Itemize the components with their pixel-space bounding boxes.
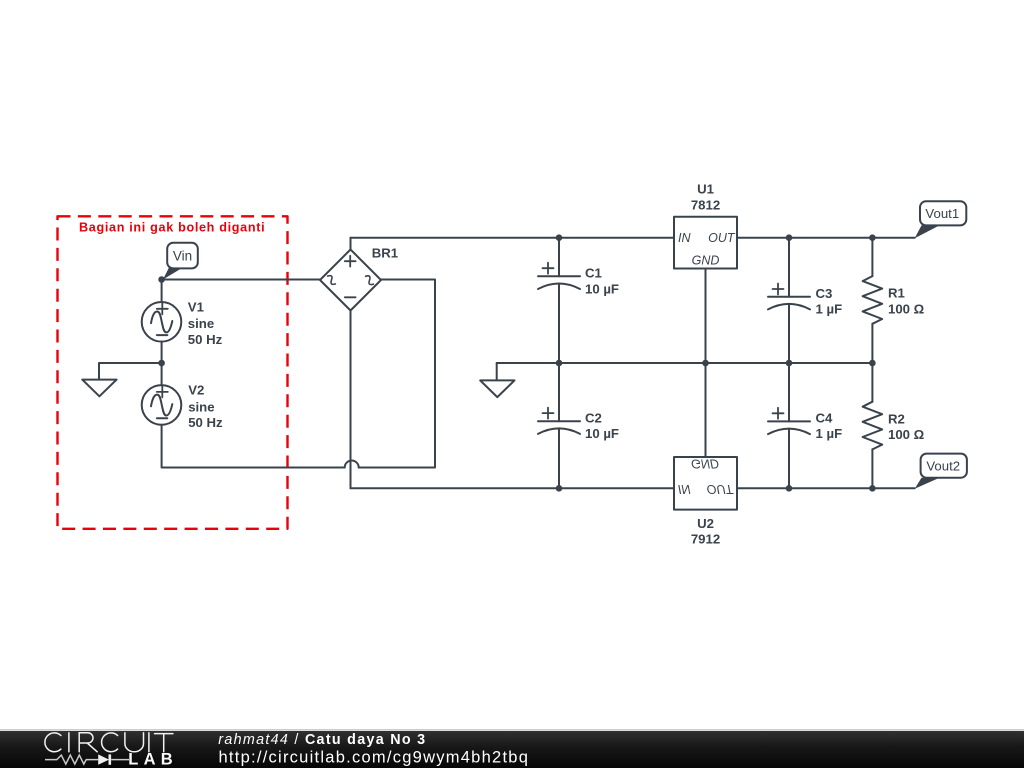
footer title text [218, 732, 426, 748]
node flag Vout2 [915, 454, 967, 489]
svg-text:7812: 7812 [691, 197, 720, 212]
U2 name and value labels [691, 516, 720, 547]
resistor R1 [863, 238, 883, 363]
wire BR1 bottom down to bottom rail corner [350, 311, 352, 489]
V2 name and value labels [188, 383, 223, 430]
svg-text:GND: GND [691, 456, 719, 470]
wire mid rail ground to R1/R2 junction [497, 362, 873, 364]
ground symbol left [82, 363, 161, 396]
C4 name and value labels [816, 411, 843, 441]
red warning text [79, 221, 265, 235]
svg-text:BR1: BR1 [372, 245, 398, 260]
svg-text:Bagian ini gak boleh diganti: Bagian ini gak boleh diganti [79, 221, 265, 235]
svg-text:50 Hz: 50 Hz [188, 332, 223, 347]
bridge rectifier BR1 [320, 250, 381, 311]
wire U2 GND to mid rail [705, 363, 707, 457]
CircuitLab logo LAB text [128, 751, 178, 768]
svg-text:LAB: LAB [128, 751, 178, 768]
capacitor C3 [768, 238, 810, 363]
junction mid rail at C3/C4 [786, 360, 793, 367]
junction bottom rail at C4 [786, 485, 793, 492]
junction top rail at C3 [786, 234, 793, 241]
wire U1 GND to mid rail [705, 269, 707, 364]
voltage source V1 [142, 302, 182, 342]
svg-text:1 µF: 1 µF [816, 301, 843, 316]
junction top rail at R1 [869, 234, 876, 241]
svg-text:1 µF: 1 µF [816, 426, 843, 441]
wire BR1 top to top rail [350, 238, 352, 250]
svg-text:10 µF: 10 µF [585, 281, 619, 296]
junction mid rail at U1/U2 GND [702, 360, 709, 367]
svg-text:C2: C2 [585, 411, 602, 426]
R2 name and value labels [888, 411, 925, 442]
V1 name and value labels [188, 299, 223, 347]
C2 name and value labels [585, 411, 619, 441]
svg-text:OUT: OUT [707, 482, 735, 496]
CircuitLab logo resistor-diode glyph [45, 754, 129, 764]
svg-text:100 Ω: 100 Ω [888, 427, 925, 442]
node flag Vout1 [915, 201, 967, 238]
svg-text:R2: R2 [888, 411, 905, 426]
node flag Vin [163, 243, 198, 280]
svg-text:sine: sine [188, 316, 214, 331]
wire V1 bottom to V2 top through mid junction [161, 342, 163, 386]
wire V2 bottom down and right to BR1 right loop (with hop over BR1 bottom wire) [162, 280, 435, 468]
svg-text:V1: V1 [188, 299, 204, 314]
svg-text:IN: IN [678, 231, 691, 245]
svg-text:http://circuitlab.com/cg9wym4b: http://circuitlab.com/cg9wym4bh2tbq [219, 748, 530, 766]
svg-text:Vout2: Vout2 [926, 459, 960, 474]
svg-text:50 Hz: 50 Hz [188, 415, 223, 430]
svg-text:C4: C4 [816, 411, 834, 426]
voltage source V2 [142, 385, 182, 425]
svg-text:Vout1: Vout1 [925, 206, 959, 221]
junction between V1 and V2 [158, 360, 165, 367]
svg-text:7912: 7912 [691, 532, 720, 547]
R1 name and value labels [888, 286, 925, 317]
svg-text:rahmat44 / Catu daya No 3: rahmat44 / Catu daya No 3 [218, 732, 426, 748]
wire top rail U1 OUT to Vout1 [737, 237, 915, 239]
C1 name and value labels [585, 266, 619, 297]
capacitor C2 [538, 363, 580, 488]
regulator U1 [674, 217, 737, 269]
resistor R2 [863, 363, 883, 488]
svg-text:R1: R1 [888, 286, 905, 301]
capacitor C4 [768, 363, 810, 488]
wire bottom rail U2 OUT to Vout2 [737, 487, 915, 489]
svg-text:sine: sine [188, 399, 214, 414]
svg-text:Vin: Vin [173, 249, 192, 264]
C3 name and value labels [816, 286, 843, 316]
U1 name and value labels [691, 182, 720, 213]
junction bottom rail at C2 [556, 485, 563, 492]
svg-text:C1: C1 [585, 266, 602, 281]
BR1 name label [372, 245, 398, 260]
svg-text:U2: U2 [697, 516, 714, 531]
footer bar [0, 729, 1024, 768]
svg-text:U1: U1 [697, 182, 714, 197]
svg-text:10 µF: 10 µF [585, 426, 619, 441]
footer url text [219, 748, 530, 766]
ground symbol mid [480, 363, 514, 397]
svg-text:V2: V2 [188, 383, 204, 398]
CircuitLab logo CIRCUIT text [45, 733, 173, 752]
red restriction box [58, 216, 288, 529]
wire Vin node down to V1 top [161, 280, 163, 303]
svg-text:GND: GND [692, 254, 720, 268]
junction mid rail at C1/C2 [556, 360, 563, 367]
svg-text:OUT: OUT [708, 231, 736, 245]
junction mid rail at R1/R2 [869, 360, 876, 367]
junction node Vin [158, 276, 165, 283]
svg-text:IN: IN [678, 482, 691, 496]
wire Vin node to BR1 left terminal [162, 279, 320, 281]
wire top rail BR1 to U1 IN [351, 237, 675, 239]
junction top rail at C1 [556, 234, 563, 241]
junction bottom rail at R2 [869, 485, 876, 492]
regulator U2 (rotated 180) [674, 456, 737, 509]
svg-text:C3: C3 [816, 286, 833, 301]
svg-text:100 Ω: 100 Ω [888, 301, 925, 316]
capacitor C1 [538, 238, 580, 363]
wire bottom rail BR1 corner to U2 IN [351, 487, 675, 489]
